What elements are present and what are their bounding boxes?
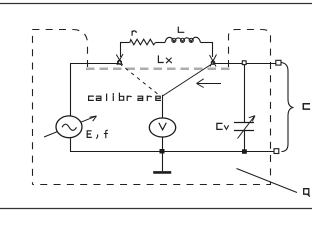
wire: voltmeter bottom stem [162, 137, 164, 152]
wire: branch corner to resistor [120, 42, 129, 44]
leader line to Q [237, 169, 298, 193]
label r [132, 31, 136, 35]
voltmeter V [149, 118, 175, 137]
brace C [282, 63, 294, 152]
resistor r [128, 39, 155, 45]
top rule [0, 3, 312, 5]
node: terminal 1 (left) with down arrowhead [116, 54, 123, 65]
wire: source bottom vertical [70, 138, 72, 152]
annotation left arrow [197, 79, 222, 88]
terminal square top right [276, 60, 281, 65]
wire: Cv branch upper [244, 65, 246, 122]
Q-meter enclosure dashed boundary (left part with notch corner) [33, 30, 88, 185]
wire: Cv branch lower [244, 131, 246, 153]
wire: resistor to inductor [156, 42, 165, 44]
gray dashed shield line (notch bottom) [86, 68, 231, 71]
source variability arrow [44, 116, 97, 137]
capacitor Cv [234, 116, 255, 139]
wire: left vertical to source [70, 63, 72, 117]
terminal square bottom right [274, 149, 279, 154]
label E,f [87, 130, 107, 138]
wire: coil branch right vertical [212, 42, 214, 57]
wire: inductor to right corner [201, 42, 214, 44]
label L [178, 27, 183, 32]
node: terminal 2 (right) with down arrowhead [210, 55, 217, 67]
label C [303, 104, 309, 109]
inductor L [165, 37, 201, 42]
leader dashed (calibrare position) [120, 64, 160, 96]
node: Cv top (open square) [242, 61, 246, 65]
wire: bottom horizontal [70, 151, 274, 153]
label Lx [158, 56, 171, 63]
AC source E,f [56, 116, 82, 138]
node: Cv bottom (filled square) [242, 149, 247, 154]
wire: top-left horizontal [70, 63, 120, 65]
label Cv [217, 123, 229, 129]
leader solid (measure position) [163, 64, 213, 97]
bottom rule [0, 208, 312, 210]
node: ground junction (filled square) [160, 149, 165, 154]
label Q [304, 189, 310, 196]
Q-meter enclosure dashed boundary (right part with terminal bump) [33, 30, 271, 185]
wire: top-right horizontal [213, 63, 276, 65]
ground [153, 154, 171, 173]
wire: coil branch left vertical [120, 42, 122, 57]
wire: voltmeter top stem [162, 95, 164, 119]
label calibrare [89, 93, 161, 100]
